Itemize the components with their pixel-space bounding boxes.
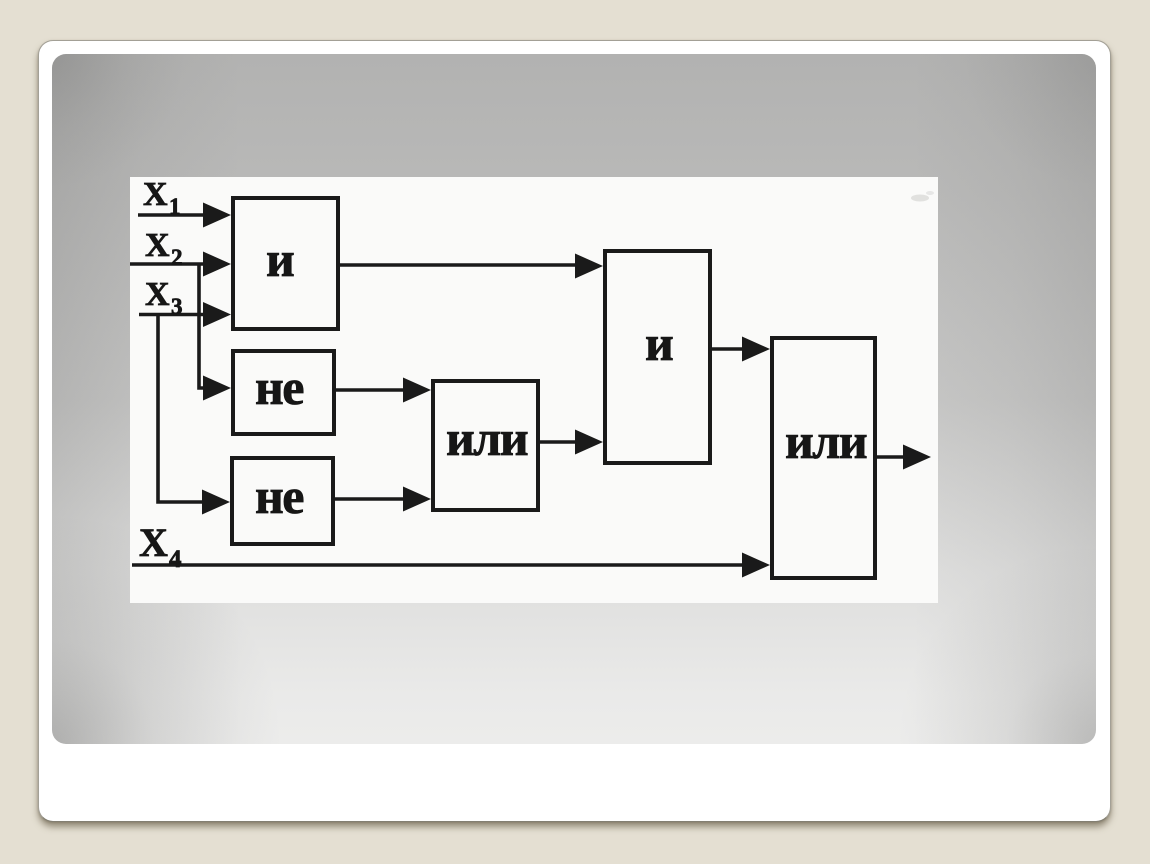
svg-text:не: не	[255, 468, 303, 524]
arrow X2 into AND1	[203, 252, 231, 277]
arrow into NOT2	[202, 490, 230, 515]
arrow X4 into OR2	[742, 553, 770, 578]
gate AND2 box	[605, 251, 710, 463]
arrow OR2 output	[903, 445, 931, 470]
wire X4	[132, 563, 746, 567]
svg-text:4: 4	[169, 546, 182, 573]
svg-text:или: или	[785, 413, 867, 469]
wire OR1 to AND2	[540, 440, 580, 444]
scan smudge artifact	[911, 195, 929, 202]
svg-text:или: или	[446, 410, 528, 466]
svg-text:1: 1	[169, 194, 180, 219]
gray gradient slide panel	[52, 54, 1096, 744]
svg-text:3: 3	[171, 294, 182, 319]
svg-text:не: не	[255, 359, 303, 415]
gate AND1 box	[233, 198, 338, 329]
wire OR2 output	[876, 455, 906, 459]
arrow into AND2 bottom	[575, 430, 603, 455]
wire NOT1 to OR1	[336, 388, 408, 392]
gate NOT2 box	[232, 458, 333, 544]
wire X2	[130, 262, 206, 266]
gate NOT1 box	[233, 351, 334, 434]
wire X1	[138, 213, 206, 217]
wire NOT2 to OR1	[335, 497, 408, 501]
arrow X3 into AND1	[203, 302, 231, 327]
scanned diagram white area	[130, 177, 938, 603]
wire X3	[139, 313, 206, 317]
arrow into OR1 bottom	[403, 487, 431, 512]
arrow into AND2 top	[575, 254, 603, 279]
wire AND2 to OR2	[712, 347, 748, 351]
arrow into OR1 top	[403, 378, 431, 403]
wire branch X3 to NOT2	[158, 315, 206, 503]
svg-text:2: 2	[171, 245, 182, 270]
svg-text:X: X	[145, 227, 170, 264]
gate OR1 box	[433, 381, 538, 510]
wire branch X2 to NOT1	[199, 264, 206, 388]
svg-text:X: X	[143, 177, 168, 213]
svg-text:X: X	[145, 276, 170, 313]
svg-text:и: и	[266, 231, 294, 287]
arrow into NOT1	[203, 376, 231, 401]
svg-text:и: и	[645, 315, 673, 371]
svg-text:X: X	[139, 520, 168, 565]
wire AND1 to AND2	[339, 263, 580, 267]
arrow X1 into AND1	[203, 203, 231, 228]
arrow into OR2 from AND2	[742, 337, 770, 362]
gate OR2 box	[772, 338, 875, 578]
